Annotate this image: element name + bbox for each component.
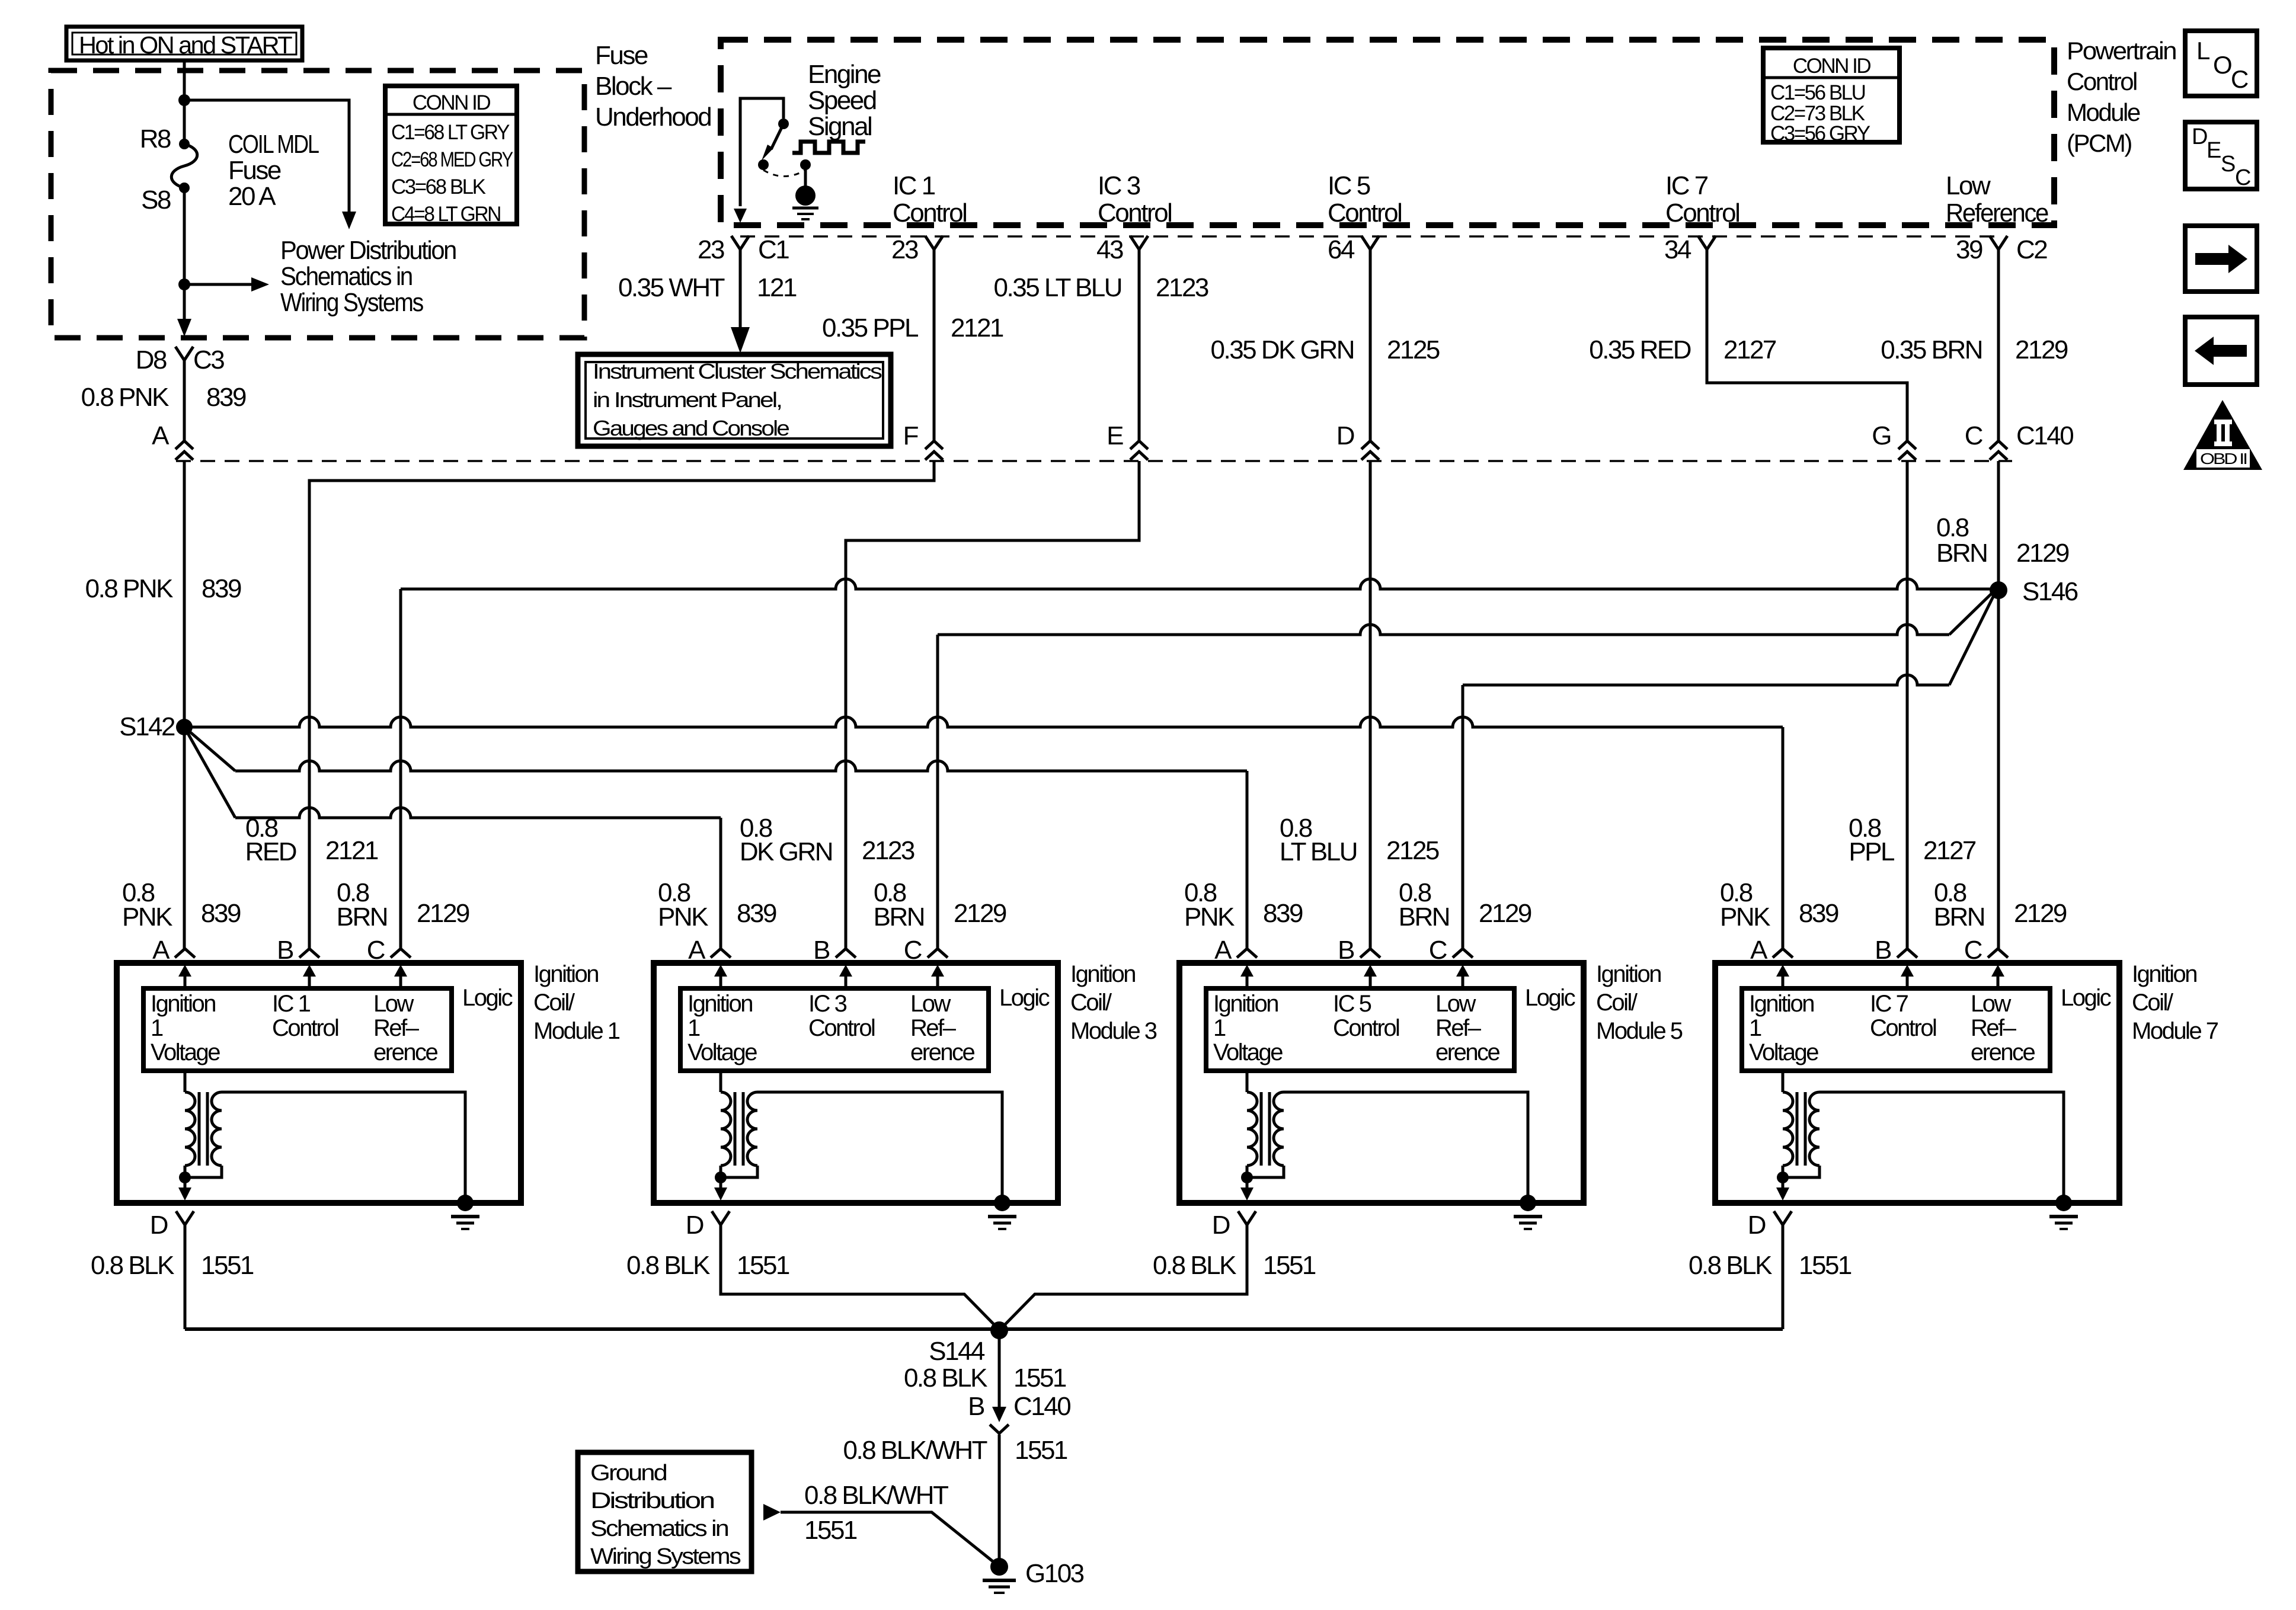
svg-text:E: E bbox=[1107, 421, 1123, 450]
svg-text:C: C bbox=[1964, 936, 1982, 965]
svg-text:Ignition: Ignition bbox=[1070, 961, 1135, 987]
svg-text:839: 839 bbox=[206, 383, 246, 412]
pin D connector module 1 bbox=[176, 1211, 194, 1225]
svg-text:1551: 1551 bbox=[201, 1251, 254, 1280]
ground bus to S144 bbox=[185, 1327, 1783, 1331]
svg-text:Gauges and Console: Gauges and Console bbox=[593, 416, 789, 440]
LOC icon box bbox=[2185, 31, 2257, 96]
svg-text:BRN: BRN bbox=[337, 902, 387, 932]
svg-text:1551: 1551 bbox=[737, 1251, 789, 1280]
svg-text:Ground: Ground bbox=[590, 1461, 666, 1486]
svg-text:2129: 2129 bbox=[2015, 335, 2068, 364]
svg-text:0.35 PPL: 0.35 PPL bbox=[822, 313, 919, 343]
svg-text:F: F bbox=[903, 421, 919, 450]
splice S146 bbox=[1990, 581, 2007, 599]
square wave symbol bbox=[792, 142, 865, 153]
svg-text:C4=8 LT GRN: C4=8 LT GRN bbox=[391, 203, 500, 226]
svg-text:A: A bbox=[152, 936, 170, 965]
svg-text:S142: S142 bbox=[119, 712, 175, 741]
pin D connector module 7 bbox=[1774, 1211, 1792, 1225]
PCM pin 34 connector bbox=[1698, 236, 1716, 249]
ignition coil transformer module 7 bbox=[1782, 1071, 1785, 1092]
wire module 5 D feeder bbox=[1005, 1225, 1247, 1325]
svg-text:A: A bbox=[688, 936, 706, 965]
connector C140 dashed line bbox=[176, 460, 2012, 462]
arrows into logic box module 5 bbox=[1246, 975, 1249, 988]
svg-text:IC 7: IC 7 bbox=[1665, 171, 1708, 200]
svg-text:0.35 BRN: 0.35 BRN bbox=[1881, 335, 1982, 364]
ground symbol module 1 bbox=[457, 1195, 474, 1211]
svg-text:S144: S144 bbox=[929, 1337, 985, 1366]
svg-text:C: C bbox=[2231, 65, 2248, 93]
svg-text:C3=56 GRY: C3=56 GRY bbox=[1770, 122, 1870, 145]
wire low ref branch to module 1 pin C bbox=[401, 579, 1998, 589]
svg-text:2129: 2129 bbox=[2014, 899, 2067, 928]
ignition coil transformer module 5 bbox=[1246, 1071, 1249, 1092]
svg-text:Schematics in: Schematics in bbox=[590, 1516, 728, 1541]
svg-text:0.8 BLK: 0.8 BLK bbox=[1689, 1251, 1772, 1280]
wire secondary to internal ground module 5 bbox=[1284, 1092, 1528, 1203]
svg-text:PNK: PNK bbox=[1184, 902, 1235, 932]
arrows into logic box module 7 bbox=[1782, 975, 1785, 988]
junction node primary/secondary module 5 bbox=[1241, 1172, 1253, 1183]
svg-text:2129: 2129 bbox=[1479, 899, 1531, 928]
svg-text:Control: Control bbox=[1098, 199, 1171, 228]
PCM pin 64 connector bbox=[1361, 236, 1379, 249]
wire module 1 D to ground bus bbox=[184, 1225, 187, 1329]
svg-text:2127: 2127 bbox=[1723, 335, 1776, 364]
wire IC7 control: down to module 7 pin B bbox=[1906, 461, 1909, 949]
ignition coil/module 1 box bbox=[117, 963, 521, 1203]
svg-text:BRN: BRN bbox=[1934, 902, 1984, 932]
svg-text:Control: Control bbox=[1665, 199, 1739, 228]
conn id table (PCM) bbox=[1763, 48, 1900, 142]
wire IC1 control: F stub down then left to module 1 pin B bbox=[309, 461, 934, 949]
svg-text:0.8 BLK/WHT: 0.8 BLK/WHT bbox=[843, 1436, 987, 1465]
ground G103 bbox=[990, 1558, 1008, 1576]
svg-text:0.8 PNK: 0.8 PNK bbox=[81, 383, 170, 412]
svg-text:64: 64 bbox=[1328, 235, 1355, 264]
svg-text:Logic: Logic bbox=[2061, 985, 2111, 1011]
svg-text:Wiring Systems: Wiring Systems bbox=[280, 288, 423, 317]
svg-text:C3=68 BLK: C3=68 BLK bbox=[391, 175, 486, 199]
svg-text:Ignition: Ignition bbox=[687, 991, 752, 1017]
svg-text:Instrument Cluster Schematics: Instrument Cluster Schematics bbox=[593, 359, 882, 383]
svg-text:Voltage: Voltage bbox=[687, 1039, 757, 1065]
svg-text:0.35 DK GRN: 0.35 DK GRN bbox=[1211, 335, 1354, 364]
svg-text:839: 839 bbox=[202, 574, 241, 603]
svg-text:C140: C140 bbox=[2016, 421, 2073, 450]
svg-text:Voltage: Voltage bbox=[1213, 1039, 1283, 1065]
svg-text:Powertrain: Powertrain bbox=[2067, 37, 2176, 65]
conn id table (fuse block) bbox=[385, 86, 517, 224]
connector C140 pin E bbox=[1130, 441, 1148, 449]
svg-text:839: 839 bbox=[1263, 899, 1303, 928]
svg-text:COIL MDL: COIL MDL bbox=[228, 130, 319, 159]
svg-text:G103: G103 bbox=[1025, 1559, 1084, 1588]
svg-text:C: C bbox=[1429, 936, 1447, 965]
svg-text:Ignition: Ignition bbox=[1749, 991, 1814, 1017]
wire below fuse bbox=[183, 188, 186, 319]
svg-text:Coil/: Coil/ bbox=[1596, 990, 1638, 1016]
svg-text:C3: C3 bbox=[193, 345, 224, 375]
svg-text:C: C bbox=[2235, 165, 2250, 190]
arrow down to D8 connector bbox=[177, 319, 191, 337]
svg-text:D: D bbox=[1212, 1211, 1230, 1240]
wire secondary to internal ground module 7 bbox=[1819, 1092, 2064, 1203]
ground symbol module 3 bbox=[994, 1195, 1011, 1211]
svg-text:CONN ID: CONN ID bbox=[412, 91, 491, 114]
svg-text:34: 34 bbox=[1664, 235, 1691, 264]
connector C140 pin C bbox=[1990, 441, 2007, 449]
svg-text:Speed: Speed bbox=[808, 86, 876, 115]
svg-text:IC 3: IC 3 bbox=[1098, 171, 1140, 200]
svg-text:Ref–: Ref– bbox=[1435, 1015, 1482, 1041]
svg-text:43: 43 bbox=[1096, 235, 1123, 264]
svg-text:1: 1 bbox=[151, 1015, 163, 1041]
svg-text:Ignition: Ignition bbox=[151, 991, 215, 1017]
svg-text:erence: erence bbox=[373, 1039, 438, 1065]
svg-text:D: D bbox=[686, 1211, 703, 1240]
junction node primary/secondary module 3 bbox=[715, 1172, 727, 1183]
svg-text:erence: erence bbox=[910, 1039, 975, 1065]
svg-text:2127: 2127 bbox=[1923, 836, 1976, 865]
svg-text:839: 839 bbox=[201, 899, 241, 928]
svg-text:B: B bbox=[968, 1392, 984, 1421]
svg-text:839: 839 bbox=[1799, 899, 1838, 928]
svg-text:Module 5: Module 5 bbox=[1596, 1018, 1683, 1044]
switch contact node left bbox=[758, 159, 769, 170]
connector C140 pin A bbox=[175, 441, 193, 449]
logic box module 7 bbox=[1742, 988, 2050, 1071]
svg-text:Module: Module bbox=[2067, 98, 2140, 126]
svg-text:0.35 RED: 0.35 RED bbox=[1589, 335, 1690, 364]
svg-text:1: 1 bbox=[687, 1015, 700, 1041]
svg-text:0.35 WHT: 0.35 WHT bbox=[618, 273, 725, 302]
svg-text:D: D bbox=[150, 1211, 168, 1240]
svg-text:2129: 2129 bbox=[2016, 539, 2069, 568]
arrow to pin D module 7 bbox=[1782, 1177, 1785, 1189]
logic box module 3 bbox=[680, 988, 989, 1071]
arrows into logic box module 1 bbox=[184, 975, 187, 988]
svg-text:Coil/: Coil/ bbox=[533, 990, 575, 1016]
wire arrow to power distribution text bbox=[184, 283, 251, 286]
splice S144 bbox=[990, 1321, 1008, 1339]
svg-text:Power Distribution: Power Distribution bbox=[280, 236, 456, 265]
OBD II triangle icon bbox=[2183, 400, 2262, 470]
svg-text:D: D bbox=[1336, 421, 1354, 450]
wire 839 PNK branch to module 5 pin A bbox=[184, 727, 235, 771]
wire module 3 D feeder bbox=[721, 1225, 994, 1325]
svg-text:BRN: BRN bbox=[1936, 539, 1987, 568]
svg-text:in Instrument Panel,: in Instrument Panel, bbox=[593, 388, 781, 412]
svg-text:0.8: 0.8 bbox=[1936, 513, 1969, 542]
arrow from ground distribution box bbox=[763, 1504, 781, 1521]
svg-text:2129: 2129 bbox=[954, 899, 1006, 928]
wire 2125 DK GRN from pin 64 (IC 5 control) bbox=[1369, 249, 1372, 441]
svg-text:Distribution: Distribution bbox=[590, 1489, 714, 1513]
wire: hot feed into fuse block bbox=[183, 60, 186, 144]
svg-text:A: A bbox=[152, 421, 170, 450]
wire 839 PNK fuse output bbox=[183, 360, 186, 441]
svg-text:IC 1: IC 1 bbox=[893, 171, 935, 200]
wire IC3 control: E stub down then left to module 3 pin B bbox=[846, 461, 1139, 949]
svg-text:0.8 BLK: 0.8 BLK bbox=[904, 1363, 987, 1393]
wire secondary to internal ground module 3 bbox=[757, 1092, 1002, 1203]
svg-text:B: B bbox=[1338, 936, 1354, 965]
svg-text:PNK: PNK bbox=[122, 902, 172, 932]
svg-text:CONN ID: CONN ID bbox=[1793, 55, 1871, 78]
svg-text:1: 1 bbox=[1749, 1015, 1761, 1041]
pin D connector module 5 bbox=[1238, 1211, 1256, 1225]
svg-text:A: A bbox=[1750, 936, 1768, 965]
svg-text:erence: erence bbox=[1435, 1039, 1500, 1065]
svg-text:D: D bbox=[2192, 124, 2207, 149]
ignition coil transformer module 3 bbox=[720, 1071, 722, 1092]
switch pivot node bbox=[778, 119, 789, 129]
svg-text:Hot in ON and START: Hot in ON and START bbox=[79, 31, 292, 59]
svg-text:Low: Low bbox=[910, 991, 951, 1017]
svg-text:BRN: BRN bbox=[874, 902, 924, 932]
svg-text:C: C bbox=[904, 936, 922, 965]
svg-text:Low: Low bbox=[1946, 171, 1991, 200]
wire 2123 LT BLU from pin 43 (IC 3 control) bbox=[1138, 249, 1141, 441]
arrow to pin D module 5 bbox=[1246, 1177, 1249, 1189]
svg-text:(PCM): (PCM) bbox=[2067, 129, 2131, 157]
svg-text:L: L bbox=[2196, 37, 2209, 65]
wire 839 PNK branch to module 7 pin A bbox=[184, 717, 1783, 727]
svg-text:S: S bbox=[2221, 152, 2235, 177]
wire 121 WHT from pin 23 C1 bbox=[739, 249, 742, 327]
connector C140 pin F bbox=[925, 441, 943, 449]
svg-text:Fuse: Fuse bbox=[228, 156, 281, 185]
svg-text:LT BLU: LT BLU bbox=[1280, 837, 1357, 866]
svg-text:Logic: Logic bbox=[1525, 985, 1575, 1011]
svg-text:B: B bbox=[813, 936, 830, 965]
label box "Hot in ON and START" bbox=[66, 27, 302, 60]
logic box module 5 bbox=[1206, 988, 1514, 1071]
svg-text:Control: Control bbox=[1333, 1015, 1399, 1041]
wire low ref branch to module 5 pin C bbox=[1463, 675, 1949, 685]
dashed throw arc bbox=[763, 170, 805, 177]
arrow to pin D module 1 bbox=[184, 1177, 187, 1189]
svg-text:Ignition: Ignition bbox=[1213, 991, 1278, 1017]
svg-text:Ref–: Ref– bbox=[373, 1015, 420, 1041]
svg-text:Control: Control bbox=[1870, 1015, 1936, 1041]
svg-text:0.8 PNK: 0.8 PNK bbox=[85, 574, 174, 603]
svg-text:BRN: BRN bbox=[1399, 902, 1449, 932]
svg-text:1551: 1551 bbox=[1799, 1251, 1851, 1280]
arrow to pin D module 3 bbox=[720, 1177, 722, 1189]
module 7 pin connectors A B C bbox=[1773, 949, 1793, 958]
svg-text:Ref–: Ref– bbox=[910, 1015, 957, 1041]
svg-text:39: 39 bbox=[1956, 235, 1982, 264]
PCM pin 39 connector bbox=[1990, 236, 2007, 249]
fuse block underhood dashed box bbox=[51, 71, 584, 338]
svg-text:C1: C1 bbox=[758, 235, 789, 264]
svg-text:1551: 1551 bbox=[1015, 1436, 1067, 1465]
svg-text:0.8 BLK: 0.8 BLK bbox=[626, 1251, 710, 1280]
svg-text:RED: RED bbox=[245, 837, 296, 866]
svg-text:R8: R8 bbox=[140, 124, 171, 153]
svg-text:Control: Control bbox=[272, 1015, 338, 1041]
right arrow icon box bbox=[2185, 226, 2257, 292]
wire 839 PNK below C140 bbox=[183, 461, 186, 949]
svg-text:2121: 2121 bbox=[951, 313, 1003, 343]
ground symbol module 7 bbox=[2055, 1195, 2072, 1211]
wire 1551 BLK/WHT to G103 bbox=[998, 1435, 1001, 1567]
svg-text:1551: 1551 bbox=[1263, 1251, 1316, 1280]
svg-text:Coil/: Coil/ bbox=[2132, 990, 2174, 1016]
junction node at top of fuse feed bbox=[178, 94, 190, 106]
connector C140 pin G bbox=[1898, 441, 1916, 449]
module 5 pin connectors A B C bbox=[1237, 949, 1257, 958]
svg-text:23: 23 bbox=[891, 235, 918, 264]
left arrow icon box bbox=[2185, 317, 2257, 385]
svg-text:Control: Control bbox=[893, 199, 966, 228]
switch blade with arrow bbox=[771, 124, 784, 149]
svg-text:O: O bbox=[2213, 51, 2231, 79]
svg-text:Block –: Block – bbox=[595, 72, 672, 101]
svg-text:IC 7: IC 7 bbox=[1870, 991, 1908, 1017]
junction node to power dist arrow 2 bbox=[178, 279, 190, 290]
wire low reference main: C140 C to S146 to module 7 pin C bbox=[1997, 461, 2000, 949]
ignition coil/module 5 box bbox=[1179, 963, 1584, 1203]
fuse F_COIL_MDL 20A bbox=[179, 139, 190, 149]
svg-text:0.8 BLK: 0.8 BLK bbox=[1153, 1251, 1236, 1280]
wire module 7 D to ground bus bbox=[1782, 1225, 1785, 1329]
arrows into logic box module 3 bbox=[720, 975, 722, 988]
svg-text:2121: 2121 bbox=[325, 836, 378, 865]
svg-text:G: G bbox=[1872, 421, 1891, 450]
svg-text:D8: D8 bbox=[136, 345, 167, 375]
svg-text:Coil/: Coil/ bbox=[1070, 990, 1112, 1016]
svg-text:Ignition: Ignition bbox=[533, 961, 598, 987]
junction node primary/secondary module 7 bbox=[1777, 1172, 1789, 1183]
ignition coil/module 3 box bbox=[654, 963, 1058, 1203]
svg-text:Control: Control bbox=[808, 1015, 875, 1041]
wire 2121 PPL from pin 23 (IC 1 control) bbox=[933, 249, 936, 441]
svg-text:S146: S146 bbox=[2022, 577, 2078, 606]
PCM dashed box bbox=[721, 40, 2054, 225]
DESC icon box bbox=[2185, 122, 2257, 189]
module 3 pin connectors A B C bbox=[711, 949, 731, 958]
svg-text:Low: Low bbox=[1435, 991, 1476, 1017]
svg-text:2125: 2125 bbox=[1386, 836, 1439, 865]
svg-text:B: B bbox=[1875, 936, 1891, 965]
wire branch to power distribution arrow bbox=[184, 100, 349, 212]
svg-text:Fuse: Fuse bbox=[595, 41, 648, 70]
svg-text:1551: 1551 bbox=[1013, 1363, 1066, 1393]
svg-text:Ignition: Ignition bbox=[1596, 961, 1661, 987]
module 1 pin connectors A B C bbox=[175, 949, 195, 958]
svg-text:E: E bbox=[2207, 138, 2221, 163]
svg-text:C1=56 BLU: C1=56 BLU bbox=[1770, 81, 1865, 104]
svg-text:S8: S8 bbox=[141, 185, 171, 215]
svg-text:0.8 BLK/WHT: 0.8 BLK/WHT bbox=[804, 1481, 948, 1510]
svg-text:1: 1 bbox=[1213, 1015, 1226, 1041]
pin D connector module 3 bbox=[712, 1211, 730, 1225]
instrument cluster schematics box bbox=[578, 354, 891, 446]
svg-text:Module 1: Module 1 bbox=[533, 1018, 620, 1044]
svg-text:PPL: PPL bbox=[1849, 837, 1895, 866]
svg-text:C1=68 LT GRY: C1=68 LT GRY bbox=[391, 121, 510, 144]
wire from switch to pin 23 C1 bbox=[740, 98, 784, 206]
wire 839 PNK branch to module 3 pin A bbox=[184, 727, 235, 818]
svg-text:2125: 2125 bbox=[1387, 335, 1440, 364]
wire IC5 control: straight down to module 5 pin B bbox=[1369, 461, 1372, 949]
wire 2127 RED from pin 34 (IC 7 control) bbox=[1707, 249, 1907, 441]
svg-text:C2: C2 bbox=[2016, 235, 2047, 264]
switch contact node right bbox=[800, 159, 811, 170]
svg-text:2123: 2123 bbox=[1156, 273, 1208, 302]
svg-text:2129: 2129 bbox=[417, 899, 469, 928]
svg-text:IC 5: IC 5 bbox=[1333, 991, 1371, 1017]
junction node primary/secondary module 1 bbox=[179, 1172, 191, 1183]
svg-text:Voltage: Voltage bbox=[151, 1039, 220, 1065]
wire low ref branch to module 3 pin C bbox=[938, 625, 1949, 635]
svg-text:Control: Control bbox=[2067, 68, 2137, 95]
svg-text:2123: 2123 bbox=[862, 836, 914, 865]
svg-text:Logic: Logic bbox=[462, 985, 513, 1011]
svg-text:Signal: Signal bbox=[808, 112, 871, 141]
PCM pin 23 connector bbox=[731, 236, 749, 249]
svg-text:23: 23 bbox=[698, 235, 724, 264]
svg-text:Low: Low bbox=[1971, 991, 2011, 1017]
svg-text:121: 121 bbox=[757, 273, 797, 302]
svg-text:PNK: PNK bbox=[1720, 902, 1770, 932]
ignition coil/module 7 box bbox=[1715, 963, 2119, 1203]
svg-text:OBD II: OBD II bbox=[2200, 450, 2246, 468]
svg-text:C: C bbox=[1965, 421, 1983, 450]
svg-text:PNK: PNK bbox=[658, 902, 708, 932]
ground distribution schematics box bbox=[578, 1452, 752, 1571]
svg-text:IC 3: IC 3 bbox=[808, 991, 847, 1017]
svg-text:Module 7: Module 7 bbox=[2132, 1018, 2218, 1044]
svg-text:Underhood: Underhood bbox=[595, 103, 711, 132]
svg-text:0.35 LT BLU: 0.35 LT BLU bbox=[994, 273, 1121, 302]
svg-text:A: A bbox=[1214, 936, 1232, 965]
svg-text:Engine: Engine bbox=[808, 60, 881, 89]
connector D8/C3 bbox=[175, 347, 193, 360]
wire 1551 BLK/WHT from ground distribution bbox=[781, 1512, 995, 1563]
svg-text:Low: Low bbox=[373, 991, 414, 1017]
svg-text:erence: erence bbox=[1971, 1039, 2035, 1065]
connector C140 pin D bbox=[1361, 441, 1379, 449]
PCM connector row dashed line bbox=[740, 235, 1998, 238]
PCM pin 43 connector bbox=[1130, 236, 1148, 249]
svg-text:20 A: 20 A bbox=[228, 182, 276, 211]
svg-text:B: B bbox=[277, 936, 293, 965]
svg-text:Wiring Systems: Wiring Systems bbox=[590, 1544, 741, 1569]
svg-text:1551: 1551 bbox=[804, 1516, 857, 1545]
svg-text:Voltage: Voltage bbox=[1749, 1039, 1818, 1065]
svg-text:C2=68 MED GRY: C2=68 MED GRY bbox=[391, 148, 513, 171]
splice S142 bbox=[176, 719, 193, 735]
wire secondary to internal ground module 1 bbox=[222, 1092, 465, 1203]
svg-text:IC 1: IC 1 bbox=[272, 991, 311, 1017]
svg-text:DK GRN: DK GRN bbox=[740, 837, 832, 866]
svg-text:839: 839 bbox=[737, 899, 776, 928]
svg-text:C: C bbox=[367, 936, 385, 965]
svg-text:Reference: Reference bbox=[1946, 199, 2048, 228]
PCM pin 23 connector bbox=[925, 236, 943, 249]
arrow into instrument cluster box bbox=[731, 327, 750, 353]
ground symbol module 5 bbox=[1520, 1195, 1536, 1211]
wire 1551 BLK below S144 bbox=[998, 1330, 1001, 1413]
svg-text:Logic: Logic bbox=[999, 985, 1050, 1011]
svg-text:Control: Control bbox=[1328, 199, 1401, 228]
